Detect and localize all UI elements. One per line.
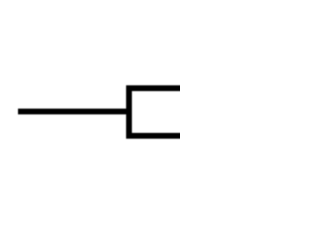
wire (18, 109, 129, 115)
resistor R1 (IEC box, cropped at right edge) (129, 88, 192, 136)
